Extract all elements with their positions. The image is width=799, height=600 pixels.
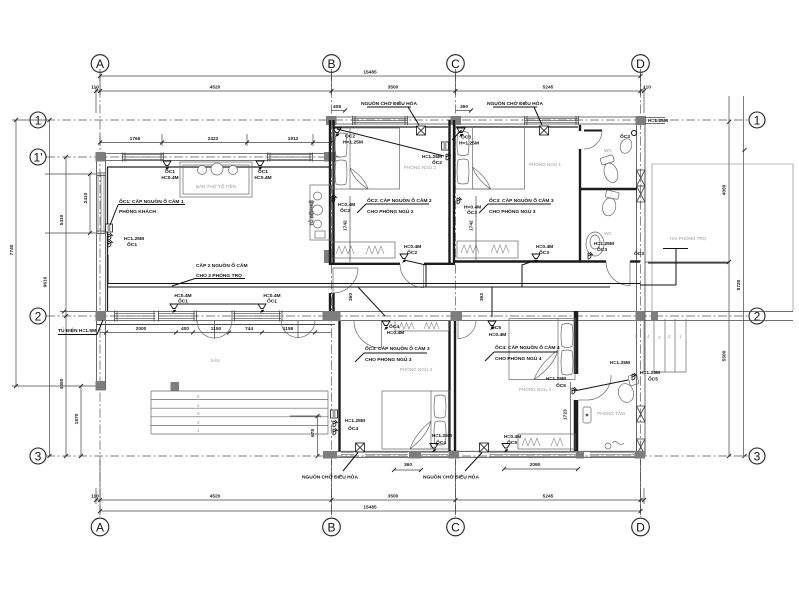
svg-text:5245: 5245 [543,494,554,500]
svg-text:5410: 5410 [59,214,65,225]
svg-text:WC: WC [604,231,612,236]
svg-text:PHÒNG NGỦ 1: PHÒNG NGỦ 1 [529,161,562,167]
svg-text:ỔC3: ỔC3 [634,250,644,257]
svg-text:3500: 3500 [388,494,399,500]
svg-text:5245: 5245 [543,85,554,91]
svg-text:2000: 2000 [136,326,147,332]
svg-text:ỔC5: ỔC5 [556,382,566,389]
svg-text:ỔC2: ỔC2 [407,249,417,256]
svg-text:1: 1 [197,428,200,433]
svg-text:HAI PHÒNG TRỌ: HAI PHÒNG TRỌ [670,235,707,241]
svg-text:ỔC5: ỔC5 [507,439,517,446]
svg-text:360: 360 [460,104,468,110]
svg-text:408: 408 [333,104,341,110]
svg-text:2410: 2410 [83,192,89,203]
svg-text:D: D [636,520,645,534]
svg-text:1723: 1723 [563,409,569,420]
svg-text:ỔC3: ỔC3 [539,249,549,256]
svg-text:3: 3 [197,411,200,416]
svg-text:TỦ BẾP+KỆ: TỦ BẾP+KỆ [307,200,314,225]
svg-text:15485: 15485 [363,505,377,511]
svg-text:ỔC4: ỔC4 [348,425,358,432]
svg-text:ỔC2: ỔC2 [432,159,442,166]
svg-text:H=0.4M: H=0.4M [489,332,506,338]
svg-text:A: A [96,57,104,71]
svg-text:1742: 1742 [343,220,349,231]
svg-text:2: 2 [668,334,671,339]
svg-text:3: 3 [35,449,42,463]
svg-text:2422: 2422 [208,136,219,142]
svg-text:B: B [327,520,335,534]
svg-text:H=1.25M: H=1.25M [640,370,660,376]
svg-text:110: 110 [91,85,99,91]
svg-text:ỔC5: ỔC5 [491,324,501,331]
svg-text:ỔC1: ỔC1 [165,168,175,175]
svg-text:3500: 3500 [388,85,399,91]
svg-text:360: 360 [404,462,412,468]
svg-text:H=0.4M: H=0.4M [387,330,404,336]
svg-text:ỔC4: ỔC4 [389,323,399,330]
svg-text:H=1.25M: H=1.25M [610,360,630,366]
svg-text:5500: 5500 [722,350,728,361]
svg-text:ỔC3: ỔC3 [620,133,630,140]
svg-text:1870: 1870 [74,413,80,424]
svg-text:C: C [451,520,460,534]
svg-text:H=1.25M: H=1.25M [459,141,479,147]
svg-text:1912: 1912 [288,136,299,142]
svg-text:1': 1' [34,150,43,164]
svg-text:SÂN: SÂN [210,357,219,363]
svg-text:H=0.4M: H=0.4M [161,175,178,181]
svg-text:ỔC2: ỔC2 [340,207,350,214]
svg-text:H=0.4M: H=0.4M [338,202,355,208]
svg-text:BÀN THỜ TỔ TIÊN: BÀN THỜ TỔ TIÊN [196,182,236,189]
svg-text:ỔC1: ỔC1 [258,168,268,175]
svg-text:A: A [96,520,104,534]
svg-text:D: D [636,57,645,71]
svg-text:H=1.25M: H=1.25M [343,140,363,146]
svg-text:ỔC1: ỔC1 [127,241,137,248]
svg-text:5: 5 [197,394,200,399]
svg-text:5: 5 [635,334,638,339]
svg-text:110: 110 [643,85,651,91]
svg-text:H=0.4M: H=0.4M [536,244,553,250]
svg-text:4520: 4520 [210,494,221,500]
svg-text:1765: 1765 [130,136,141,142]
svg-text:4050: 4050 [722,184,728,195]
svg-text:H=1.25M: H=1.25M [432,433,452,439]
svg-text:ỔC1: ỔC1 [267,298,277,305]
svg-text:2090: 2090 [530,462,541,468]
svg-text:1158: 1158 [283,326,294,332]
svg-text:ỔC2: ỔC2 [345,133,355,140]
svg-text:H=0.4M: H=0.4M [404,244,421,250]
svg-text:678: 678 [310,429,316,437]
svg-text:362: 362 [479,293,485,301]
svg-text:4: 4 [647,334,650,339]
svg-text:B: B [327,57,335,71]
svg-text:H=1.25M: H=1.25M [594,241,614,247]
svg-text:744: 744 [245,326,253,332]
svg-text:9610: 9610 [43,276,49,287]
svg-text:ỔC3: ỔC3 [597,246,607,253]
svg-text:110: 110 [91,494,99,500]
svg-text:H=0.4M: H=0.4M [263,293,280,299]
svg-text:H=1.25M: H=1.25M [546,376,566,382]
svg-text:C: C [451,57,460,71]
svg-text:2: 2 [197,420,200,425]
svg-text:1: 1 [679,334,682,339]
svg-text:H=0.4M: H=0.4M [504,434,521,440]
svg-text:ỔC3: ỔC3 [461,134,471,141]
svg-text:WC: WC [604,148,612,153]
svg-text:PHÒNG TẮM: PHÒNG TẮM [597,409,625,416]
svg-text:ỔC4: ỔC4 [436,439,446,446]
svg-text:PHÒNG NGỦ 4: PHÒNG NGỦ 4 [519,386,552,392]
svg-text:7740: 7740 [9,244,15,255]
svg-text:4520: 4520 [210,85,221,91]
svg-text:400: 400 [181,326,189,332]
svg-text:1150: 1150 [211,326,222,332]
svg-text:4050: 4050 [59,378,65,389]
svg-text:PHÒNG NGỦ 3: PHÒNG NGỦ 3 [400,366,433,372]
svg-text:H=1.25M: H=1.25M [345,418,365,424]
svg-text:H=0.4M: H=0.4M [254,175,271,181]
svg-text:15485: 15485 [363,70,377,76]
svg-text:H=1.25M: H=1.25M [124,236,144,242]
svg-text:H=0.4M: H=0.4M [464,205,481,211]
svg-text:3: 3 [754,449,761,463]
svg-text:ỔC5: ỔC5 [648,376,658,383]
svg-text:1: 1 [754,113,761,127]
svg-text:1742: 1742 [469,220,475,231]
svg-text:4: 4 [197,403,200,408]
svg-text:H=1.25M: H=1.25M [648,118,668,124]
svg-text:360: 360 [348,293,354,301]
svg-text:H=1.25M: H=1.25M [422,154,442,160]
svg-text:3: 3 [658,335,661,340]
svg-text:2: 2 [35,309,42,323]
svg-text:8720: 8720 [736,279,742,290]
